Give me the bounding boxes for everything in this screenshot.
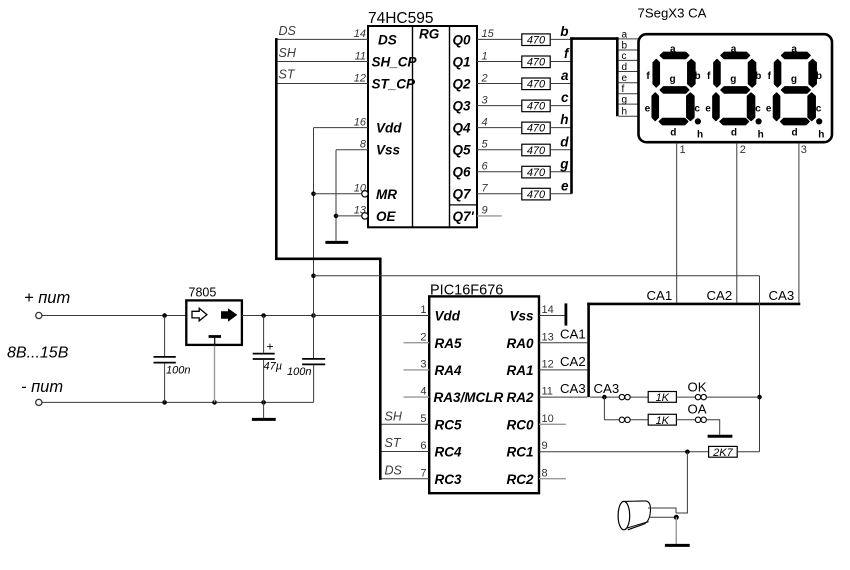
svg-text:d: d bbox=[731, 127, 737, 138]
svg-text:RC3: RC3 bbox=[435, 472, 462, 487]
resistor 2K7 bbox=[709, 446, 738, 459]
svg-text:Q6: Q6 bbox=[453, 165, 472, 180]
wire Q7' stub bbox=[477, 215, 502, 217]
resistor 470 (segment h) bbox=[522, 122, 550, 135]
svg-text:2K7: 2K7 bbox=[712, 447, 733, 459]
svg-text:8В...15В: 8В...15В bbox=[7, 345, 69, 362]
svg-text:Q7: Q7 bbox=[453, 187, 473, 202]
svg-text:9: 9 bbox=[542, 440, 548, 452]
svg-text:CA2: CA2 bbox=[707, 288, 733, 303]
wire RC1 down to sensor bbox=[676, 452, 687, 513]
wire display segment c stub bbox=[619, 59, 639, 61]
wire sensor lead top bbox=[648, 508, 676, 513]
wire ground rail bottom bbox=[42, 401, 314, 403]
capacitor C2 47µ bbox=[253, 316, 282, 403]
svg-text:a: a bbox=[622, 29, 628, 40]
svg-text:7: 7 bbox=[482, 183, 489, 195]
svg-text:RC4: RC4 bbox=[435, 445, 462, 460]
svg-text:470: 470 bbox=[527, 145, 546, 157]
svg-text:SH_CP: SH_CP bbox=[372, 55, 418, 70]
wire to R 1K bbox=[630, 396, 648, 398]
svg-text:+: + bbox=[267, 340, 274, 354]
svg-text:3: 3 bbox=[482, 94, 489, 106]
svg-text:47µ: 47µ bbox=[264, 361, 283, 373]
svg-text:4: 4 bbox=[420, 386, 426, 398]
svg-text:100n: 100n bbox=[166, 365, 190, 377]
junction dot C2 top bbox=[261, 313, 266, 318]
svg-text:MR: MR bbox=[376, 187, 397, 202]
wire +5V to pin1 Vdd (part of rail) bbox=[314, 315, 430, 317]
wire Vss pin8 bbox=[336, 149, 368, 151]
inversion bubble OE bbox=[362, 213, 368, 219]
wire Vdd vertical x=313.5 (pin16/MR/+5V to C3) bbox=[313, 128, 315, 359]
resistor 470 (segment e) bbox=[522, 188, 550, 201]
resistor 470 (segment g) bbox=[522, 166, 550, 179]
wire Vss pin14 to ground bbox=[539, 315, 566, 317]
svg-text:12: 12 bbox=[354, 72, 366, 84]
svg-text:9: 9 bbox=[482, 205, 488, 217]
svg-text:CA3: CA3 bbox=[769, 288, 795, 303]
wire display segment g stub bbox=[619, 103, 639, 105]
svg-text:b: b bbox=[560, 24, 568, 39]
inversion bubble MR bbox=[362, 191, 368, 197]
wire display segment f stub bbox=[619, 93, 639, 95]
wire resistor to segment bus bbox=[550, 149, 571, 151]
microcontroller U2 PIC16F676 bbox=[429, 283, 539, 494]
wire R 1K to OK connector bbox=[676, 396, 695, 398]
svg-text:Q3: Q3 bbox=[453, 99, 472, 114]
wire CA3 to OA row vertical bbox=[603, 397, 605, 420]
svg-text:1: 1 bbox=[420, 304, 426, 316]
wire to R 1K (OA) bbox=[630, 419, 648, 421]
svg-text:2: 2 bbox=[420, 331, 426, 343]
display digit 2 (all segments lit) bbox=[705, 44, 763, 140]
capacitor C3 100n bbox=[287, 359, 325, 403]
bus CA vertical (thick) bbox=[587, 303, 590, 398]
svg-text:4: 4 bbox=[482, 116, 488, 128]
wire OA to ground bbox=[707, 420, 720, 435]
wire Q6 to resistor bbox=[477, 171, 522, 173]
wire sensor lead bottom bbox=[650, 516, 676, 518]
svg-text:470: 470 bbox=[527, 101, 546, 113]
wire ST to pin12 bbox=[278, 83, 369, 85]
wire 7805 gnd to rail bbox=[214, 346, 216, 403]
svg-text:g: g bbox=[622, 95, 628, 106]
svg-text:7805: 7805 bbox=[189, 286, 217, 300]
wire resistor to segment bus bbox=[550, 83, 571, 85]
svg-text:e: e bbox=[622, 73, 628, 84]
resistor 470 (segment c) bbox=[522, 100, 550, 113]
svg-text:2: 2 bbox=[481, 72, 488, 84]
voltage regulator 7805 bbox=[186, 286, 242, 345]
connector pins OA row right bbox=[695, 417, 700, 422]
svg-text:g: g bbox=[791, 74, 797, 85]
svg-text:h: h bbox=[560, 112, 568, 127]
wire Q0 to resistor bbox=[477, 38, 522, 40]
svg-text:14: 14 bbox=[542, 304, 554, 316]
bus segments vertical (thick, left) bbox=[570, 37, 573, 194]
wire DS to pin14 bbox=[278, 38, 369, 40]
wire Q5 to resistor bbox=[477, 149, 522, 151]
wire resistor to segment bus bbox=[550, 61, 571, 63]
svg-text:OA: OA bbox=[688, 402, 707, 417]
junction dot MR row bbox=[311, 192, 316, 197]
svg-text:1: 1 bbox=[482, 50, 488, 62]
svg-text:RG: RG bbox=[419, 27, 440, 42]
svg-text:b: b bbox=[695, 71, 701, 82]
sensor microphone (cylinder) bbox=[618, 501, 650, 530]
svg-text:g: g bbox=[670, 74, 676, 85]
svg-text:c: c bbox=[561, 90, 569, 105]
svg-text:d: d bbox=[622, 62, 628, 73]
ground bar at Vss (rotated) bbox=[565, 303, 568, 325]
svg-text:e: e bbox=[645, 103, 651, 114]
svg-text:Q4: Q4 bbox=[453, 121, 472, 136]
svg-text:Vdd: Vdd bbox=[376, 121, 402, 136]
svg-text:e: e bbox=[766, 103, 772, 114]
wire 7805 output +5V rail bbox=[242, 315, 429, 317]
svg-text:11: 11 bbox=[355, 50, 366, 62]
svg-text:d: d bbox=[560, 134, 569, 149]
svg-text:SH: SH bbox=[279, 46, 297, 60]
wire resistor to segment bus bbox=[550, 193, 571, 195]
svg-text:RA5: RA5 bbox=[435, 336, 462, 351]
wire Q3 to resistor bbox=[477, 105, 522, 107]
wire Q7 to resistor bbox=[477, 193, 522, 195]
svg-text:Q1: Q1 bbox=[453, 54, 471, 69]
display digit 1 (all segments lit) bbox=[645, 44, 703, 140]
resistor 1K (OA) bbox=[648, 414, 676, 427]
svg-text:1: 1 bbox=[680, 144, 686, 156]
svg-text:RA0: RA0 bbox=[506, 336, 533, 351]
wire 2K7 to pullup vertical bbox=[737, 451, 759, 453]
wire resistor to segment bus bbox=[550, 105, 571, 107]
display digit 3 (all segments lit) bbox=[766, 44, 824, 140]
wire RA2 to CA bus bbox=[539, 396, 587, 398]
svg-text:470: 470 bbox=[527, 167, 546, 179]
svg-text:h: h bbox=[622, 107, 628, 118]
wire display segment h stub bbox=[619, 115, 639, 117]
wire OA row bbox=[604, 419, 619, 421]
svg-text:10: 10 bbox=[542, 413, 554, 425]
wire sensor to ground bbox=[675, 517, 677, 544]
wire +5V pullup vertical bbox=[759, 276, 761, 452]
svg-text:15: 15 bbox=[482, 28, 495, 40]
svg-text:CA3: CA3 bbox=[594, 381, 620, 396]
svg-text:RC5: RC5 bbox=[435, 417, 462, 432]
wire RC1 pin9 bbox=[539, 451, 709, 453]
svg-text:RA3/MCLR: RA3/MCLR bbox=[434, 390, 504, 405]
svg-text:e: e bbox=[705, 103, 711, 114]
ground below 47µ bbox=[252, 402, 276, 419]
svg-text:CA2: CA2 bbox=[560, 354, 586, 369]
svg-text:RA4: RA4 bbox=[435, 363, 462, 378]
bus segments vertical (thick, display side) bbox=[616, 37, 619, 116]
svg-text:74HC595: 74HC595 bbox=[368, 10, 434, 27]
wire RC2 stub bbox=[539, 478, 566, 480]
svg-text:RA1: RA1 bbox=[506, 363, 533, 378]
svg-text:13: 13 bbox=[542, 331, 554, 343]
wire Q2 to resistor bbox=[477, 83, 522, 85]
svg-text:c: c bbox=[622, 51, 627, 62]
svg-text:RC1: RC1 bbox=[506, 445, 533, 460]
svg-text:a: a bbox=[731, 44, 737, 55]
junction dot Vdd vertical on +5V rail bbox=[311, 313, 316, 318]
bus CA horizontal (thick) bbox=[587, 303, 800, 306]
bus DS/SH/ST (thick) bbox=[276, 38, 380, 480]
svg-text:d: d bbox=[792, 127, 798, 138]
svg-text:DS: DS bbox=[279, 24, 297, 38]
wire Q1 to resistor bbox=[477, 61, 522, 63]
svg-text:c: c bbox=[755, 103, 761, 114]
bus segments horizontal (thick, top) bbox=[570, 37, 618, 40]
svg-text:6: 6 bbox=[420, 440, 426, 452]
wire SH to pin5 bbox=[382, 423, 430, 425]
svg-text:470: 470 bbox=[527, 79, 546, 91]
wire RA3/MCLR stub bbox=[404, 396, 430, 398]
svg-text:g: g bbox=[730, 74, 736, 85]
resistor 470 (segment f) bbox=[522, 56, 550, 69]
svg-text:11: 11 bbox=[542, 386, 553, 398]
svg-text:OE: OE bbox=[376, 209, 397, 224]
svg-text:3: 3 bbox=[801, 144, 807, 156]
connector pins OK row left bbox=[619, 394, 624, 399]
svg-text:RC2: RC2 bbox=[506, 472, 533, 487]
wire SH to pin11 bbox=[278, 61, 369, 63]
junction dot sensor ground bbox=[674, 515, 679, 520]
svg-text:7: 7 bbox=[420, 467, 426, 479]
svg-text:Vss: Vss bbox=[509, 309, 534, 324]
svg-text:CA1: CA1 bbox=[560, 327, 586, 342]
junction dot C2 bottom bbox=[261, 400, 266, 405]
wire ST to pin6 bbox=[382, 451, 430, 453]
svg-text:b: b bbox=[755, 71, 761, 82]
svg-text:b: b bbox=[622, 40, 628, 51]
wire DS to pin7 bbox=[382, 478, 430, 480]
terminal + пит bbox=[24, 289, 70, 319]
svg-text:Q0: Q0 bbox=[453, 32, 472, 47]
svg-text:ST: ST bbox=[385, 436, 402, 450]
svg-text:470: 470 bbox=[527, 189, 546, 201]
svg-text:2: 2 bbox=[740, 144, 746, 156]
connector pins OA row left bbox=[619, 417, 624, 422]
wire display common 1 down bbox=[676, 143, 678, 303]
resistor 470 (segment b) bbox=[522, 34, 550, 47]
capacitor C1 100n bbox=[154, 316, 191, 403]
svg-text:5: 5 bbox=[420, 413, 426, 425]
wire OE pin13 bbox=[336, 215, 362, 217]
svg-text:Vss: Vss bbox=[376, 143, 401, 158]
svg-text:470: 470 bbox=[527, 123, 546, 135]
svg-text:8: 8 bbox=[360, 139, 367, 151]
svg-text:ST: ST bbox=[279, 68, 296, 82]
svg-text:c: c bbox=[694, 103, 700, 114]
resistor 1K (OK) bbox=[648, 392, 676, 405]
wire resistor to segment bus bbox=[550, 38, 571, 40]
svg-text:14: 14 bbox=[354, 28, 366, 40]
svg-text:ST_CP: ST_CP bbox=[372, 77, 417, 92]
junction dot RC1/sensor bbox=[685, 450, 690, 455]
junction dot 7805 gnd bbox=[212, 400, 217, 405]
svg-text:SH: SH bbox=[385, 409, 403, 423]
junction dot Vdd distribution row bbox=[311, 274, 316, 279]
wire display segment b stub bbox=[619, 49, 639, 51]
svg-text:16: 16 bbox=[354, 116, 367, 128]
terminal - пит bbox=[21, 378, 63, 406]
wire RA4 stub bbox=[404, 369, 430, 371]
svg-text:e: e bbox=[561, 178, 569, 193]
svg-text:RC0: RC0 bbox=[506, 417, 533, 432]
wire +5V distribution (upper) bbox=[314, 275, 760, 277]
wire RC0 stub bbox=[539, 423, 566, 425]
wire Vss vertical x=336 bbox=[335, 150, 337, 241]
wire RA1 to CA bus bbox=[539, 369, 587, 371]
svg-text:a: a bbox=[791, 44, 797, 55]
wire CA3 row from bus bbox=[590, 396, 619, 398]
svg-text:Vdd: Vdd bbox=[435, 309, 461, 324]
svg-text:d: d bbox=[670, 127, 676, 138]
svg-text:470: 470 bbox=[527, 35, 546, 47]
shift register U1 74HC595 bbox=[368, 10, 477, 227]
wire resistor to segment bus bbox=[550, 127, 571, 129]
wire +input rail to 7805 bbox=[42, 315, 186, 317]
svg-text:h: h bbox=[697, 129, 703, 140]
wire display segment e stub bbox=[619, 82, 639, 84]
svg-text:100n: 100n bbox=[287, 366, 311, 378]
svg-text:Q5: Q5 bbox=[453, 143, 472, 158]
svg-text:12: 12 bbox=[542, 359, 554, 371]
svg-text:a: a bbox=[561, 68, 569, 83]
resistor 470 (segment a) bbox=[522, 78, 550, 91]
ground below OE bbox=[325, 241, 348, 244]
ground sensor bbox=[665, 544, 690, 547]
display DISP1 7SegX3 CA bbox=[638, 6, 833, 143]
junction dot CA3 row bbox=[602, 395, 607, 400]
svg-text:Q2: Q2 bbox=[453, 76, 472, 91]
svg-text:5: 5 bbox=[482, 139, 489, 151]
svg-text:1K: 1K bbox=[656, 415, 670, 427]
wire display segment a stub bbox=[619, 38, 639, 40]
wire R 1K to OA connector bbox=[676, 419, 695, 421]
svg-text:CA3: CA3 bbox=[560, 381, 586, 396]
svg-text:g: g bbox=[559, 156, 569, 171]
svg-text:h: h bbox=[818, 129, 824, 140]
wire RA5 stub bbox=[404, 342, 430, 344]
resistor 470 (segment d) bbox=[522, 144, 550, 157]
svg-text:OK: OK bbox=[688, 379, 707, 394]
svg-text:- пит: - пит bbox=[21, 378, 63, 396]
svg-text:DS: DS bbox=[385, 464, 403, 478]
svg-text:8: 8 bbox=[542, 467, 548, 479]
junction dot C1 top bbox=[162, 313, 167, 318]
wire Vdd pin16 bbox=[314, 127, 369, 129]
wire Q4 to resistor bbox=[477, 127, 522, 129]
svg-text:3: 3 bbox=[420, 359, 426, 371]
svg-text:7SegX3 CA: 7SegX3 CA bbox=[638, 6, 707, 21]
wire resistor to segment bus bbox=[550, 171, 571, 173]
svg-text:1K: 1K bbox=[656, 392, 670, 404]
wire display common 2 down bbox=[736, 143, 738, 303]
wire MR pin10 bbox=[314, 193, 362, 195]
svg-text:PIC16F676: PIC16F676 bbox=[430, 283, 503, 299]
svg-text:6: 6 bbox=[482, 161, 489, 173]
junction dot pullup/OK row bbox=[757, 395, 762, 400]
svg-text:h: h bbox=[758, 129, 764, 140]
wire display segment d stub bbox=[619, 71, 639, 73]
wire RA0 to CA bus bbox=[539, 342, 587, 344]
svg-text:RA2: RA2 bbox=[506, 390, 533, 405]
connector pins OK row right bbox=[695, 394, 700, 399]
svg-text:DS: DS bbox=[378, 33, 397, 48]
wire OK to pullup bbox=[707, 396, 760, 398]
svg-text:b: b bbox=[816, 71, 822, 82]
svg-text:c: c bbox=[816, 103, 822, 114]
wire display common 3 down bbox=[798, 143, 800, 303]
svg-text:Q7': Q7' bbox=[453, 209, 475, 224]
svg-text:470: 470 bbox=[527, 57, 546, 69]
svg-text:CA1: CA1 bbox=[647, 288, 673, 303]
svg-text:a: a bbox=[670, 44, 676, 55]
ground OA bbox=[708, 435, 733, 438]
svg-text:+ пит: + пит bbox=[24, 289, 70, 307]
junction dot OE row bbox=[334, 214, 339, 219]
junction dot C1 bottom bbox=[162, 400, 167, 405]
